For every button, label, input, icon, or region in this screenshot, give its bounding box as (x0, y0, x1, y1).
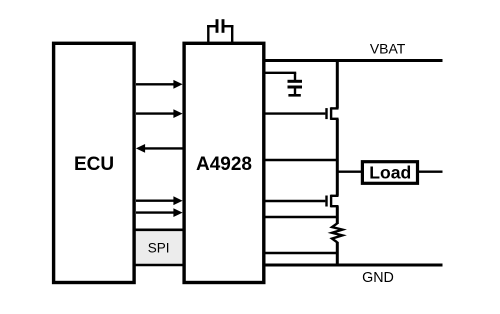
wire: stem below (294, 87, 296, 94)
svg-text:VBAT: VBAT (370, 41, 406, 57)
A4928 box (184, 43, 264, 282)
SPI bus top line (134, 229, 184, 232)
Q1 drain stub (331, 107, 338, 109)
wire: phase vertical, Q1 source down to Q2 drain (336, 119, 339, 196)
svg-text:SPI: SPI (148, 241, 170, 256)
VBAT rail (264, 59, 443, 62)
wire: to left plate (207, 25, 217, 27)
C1 left plate (216, 19, 219, 33)
wire: gate stub from A4928 (264, 200, 326, 202)
wire: phase node to Load (337, 170, 362, 172)
arrow A4928 to ECU signal 3 (136, 144, 184, 153)
Load box (362, 162, 417, 184)
ground bar (288, 94, 300, 97)
bypass capacitor C2 to ground (264, 73, 302, 96)
Q2 drain stub (331, 195, 338, 197)
Q1 channel bar (330, 107, 332, 120)
wire: SH sense line from A4928 to phase node (264, 159, 338, 161)
C2 bottom plate (288, 86, 303, 89)
C2 top plate (288, 80, 303, 83)
C1 right plate (222, 19, 225, 33)
wire: resistor bottom to GND rail (336, 242, 339, 266)
wire: gate stub from A4928 (264, 112, 326, 114)
arrow ECU to A4928 signal 2 (136, 109, 183, 118)
wire: Q2 source down to sense resistor (336, 206, 339, 224)
wire: Load to external (418, 170, 443, 172)
arrow ECU to A4928 signal 4 (136, 196, 183, 205)
svg-text:GND: GND (362, 270, 394, 286)
GND rail (264, 264, 443, 267)
SPI bus channel (grey fill) (134, 231, 184, 264)
Q2 channel bar (330, 195, 332, 208)
ECU box (54, 43, 135, 282)
charge-pump capacitor C1 (top of A4928) (207, 19, 233, 43)
wire: SL sense line from A4928 (264, 216, 338, 218)
transistor Q1 (high-side MOSFET) (264, 107, 339, 120)
SPI bus bottom line (134, 264, 184, 267)
wire: left stub up from A4928 top (207, 25, 209, 44)
wire: phase vertical, VBAT rail down to Q1 drain (336, 59, 339, 108)
wire: stub from A4928 (264, 72, 296, 74)
Q1 source stub (331, 118, 338, 120)
svg-text:Load: Load (369, 162, 411, 182)
wire: right stub down to A4928 top (231, 25, 233, 44)
wire: stem down (294, 73, 296, 81)
Q2 gate bar (325, 196, 327, 207)
arrow ECU to A4928 signal 5 (136, 208, 183, 217)
svg-text:A4928: A4928 (196, 154, 252, 175)
transistor Q2 (low-side MOSFET) (264, 195, 339, 208)
Q2 source stub (331, 205, 338, 207)
wire: from right plate (223, 25, 233, 27)
arrow ECU to A4928 signal 1 (136, 80, 183, 89)
resistor R1 (current sense) (332, 223, 342, 242)
svg-text:ECU: ECU (74, 154, 114, 175)
wire: CSN line from A4928 to resistor bottom (264, 252, 338, 254)
Q1 gate bar (325, 108, 327, 119)
